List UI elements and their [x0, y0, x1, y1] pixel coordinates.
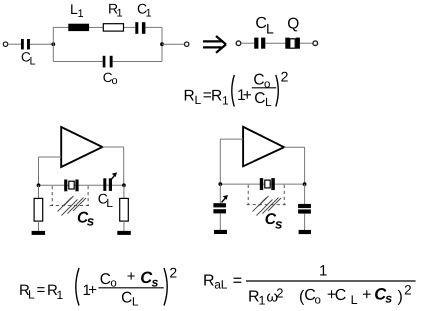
svg-text:L: L [266, 20, 274, 36]
svg-text:R: R [211, 88, 222, 105]
svg-text:+: + [88, 282, 97, 299]
svg-text:1: 1 [78, 8, 84, 20]
svg-text:L: L [221, 278, 228, 292]
svg-text:L: L [132, 295, 139, 309]
svg-text:2: 2 [169, 265, 177, 281]
svg-text:Q: Q [287, 15, 299, 32]
svg-text:+: + [362, 287, 371, 304]
svg-text:+: + [127, 268, 136, 285]
svg-text:L: L [30, 56, 36, 68]
svg-text:L: L [195, 93, 202, 107]
svg-text:1: 1 [222, 94, 229, 108]
svg-text:1: 1 [146, 8, 152, 20]
svg-text:s: s [275, 216, 283, 231]
svg-text:=: = [233, 273, 242, 290]
svg-text:2: 2 [404, 283, 412, 298]
svg-text:s: s [385, 292, 392, 306]
svg-text:+: + [243, 87, 252, 104]
svg-text:2: 2 [276, 286, 283, 301]
svg-text:1: 1 [57, 288, 64, 302]
svg-text:1: 1 [117, 8, 123, 20]
svg-text:C: C [335, 287, 347, 304]
svg-text:=: = [37, 282, 46, 299]
svg-text:C: C [254, 90, 265, 107]
svg-text:s: s [87, 213, 95, 228]
svg-text:1: 1 [259, 294, 266, 308]
svg-text:C: C [100, 271, 111, 288]
svg-text:o: o [315, 295, 321, 307]
svg-text:o: o [264, 79, 270, 91]
svg-text:1: 1 [319, 263, 327, 280]
svg-text:): ) [398, 289, 403, 306]
svg-text:C: C [253, 72, 264, 89]
svg-text:R: R [203, 273, 215, 290]
svg-text:L: L [106, 196, 113, 210]
svg-text:L: L [351, 293, 358, 307]
svg-text:L: L [28, 288, 35, 302]
svg-text:o: o [112, 75, 118, 87]
svg-text:L: L [265, 95, 272, 109]
svg-text:2: 2 [281, 69, 289, 85]
svg-text:C: C [121, 290, 132, 307]
svg-text:R: R [184, 88, 195, 105]
